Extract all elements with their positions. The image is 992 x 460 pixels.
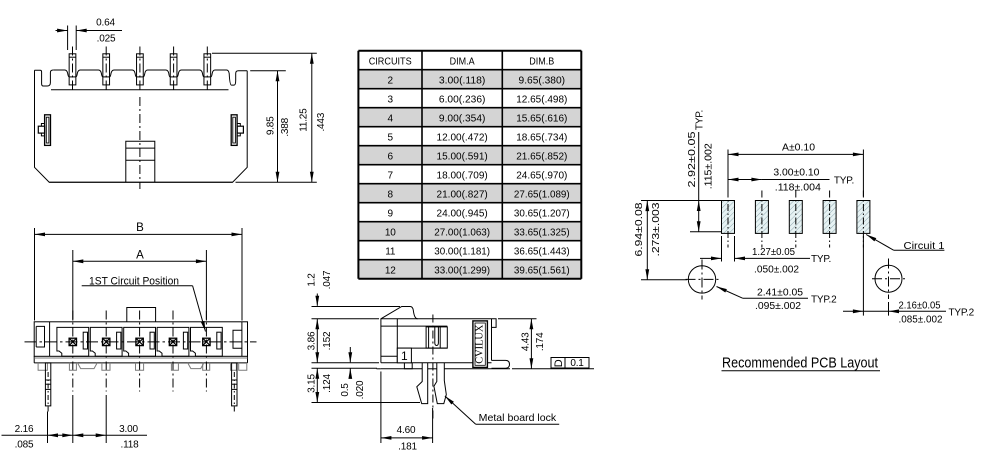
dimension 2.16 extension lines: [862, 236, 864, 316]
front view: center mounting boss: [126, 141, 155, 182]
side view: right metal board lock prong: [434, 363, 446, 404]
side view: bottom flange line: [381, 362, 492, 364]
svg-text:11.25: 11.25: [299, 108, 310, 132]
side view: interior horizontal upper line: [381, 325, 447, 327]
svg-text:3: 3: [388, 95, 394, 106]
svg-text:30.65(1.207): 30.65(1.207): [514, 209, 570, 220]
svg-text:9: 9: [388, 209, 394, 220]
front view: pin 5: [204, 54, 211, 85]
dimension 0.5 arrows: [349, 347, 351, 362]
svg-text:.152: .152: [322, 331, 333, 350]
svg-text:6: 6: [388, 152, 394, 163]
pcb pad 4 centerline: [829, 191, 831, 248]
svg-text:24.65(.970): 24.65(.970): [516, 171, 567, 182]
svg-text:4.60: 4.60: [397, 425, 416, 436]
svg-text:.181: .181: [398, 442, 417, 453]
pcb pad 5: [857, 201, 870, 234]
top view: contact pin 4 with X: [169, 338, 176, 345]
svg-text:TYP.: TYP.: [834, 175, 854, 186]
top view: body outer rectangle: [34, 322, 247, 357]
top view: right end wall: [241, 322, 243, 357]
svg-text:.124: .124: [322, 374, 333, 393]
top view: cavity 2 inner key slot: [117, 332, 121, 349]
dimension 1.2 extension line: [312, 306, 401, 308]
svg-text:4.43: 4.43: [521, 332, 532, 351]
svg-text:12.65(.498): 12.65(.498): [516, 95, 567, 106]
svg-text:2.16±0.05: 2.16±0.05: [899, 300, 941, 311]
dimension B dim line: [35, 233, 243, 235]
side view: body outline: [381, 307, 492, 363]
top view: left end inner detail: [36, 326, 44, 347]
svg-text:3.00(.118): 3.00(.118): [439, 76, 486, 87]
svg-text:27.00(1.063): 27.00(1.063): [434, 228, 490, 239]
dimension 9.85 extension line (top): [250, 70, 286, 72]
front view: pin 2 centerline: [105, 47, 107, 92]
svg-text:.050±.002: .050±.002: [754, 265, 799, 276]
pcb right mounting hole: [875, 265, 902, 292]
front view: left metal board-lock tab: [45, 115, 51, 146]
svg-text:.115±.002: .115±.002: [704, 143, 715, 189]
front view: pin 1 centerline: [72, 47, 74, 92]
svg-text:.118: .118: [121, 440, 140, 451]
front view: top edge with scallops and end notches: [35, 70, 54, 86]
svg-text:1.27±0.05: 1.27±0.05: [752, 247, 795, 258]
datum feature box D 0.1: [551, 358, 589, 369]
label Metal board lock underline: [476, 423, 560, 425]
svg-text:D: D: [553, 359, 565, 367]
svg-text:0.5: 0.5: [340, 383, 351, 397]
dimension 2.16/3.00 extension lines: [47, 412, 49, 444]
pcb pad 5 centerline: [862, 191, 864, 248]
top view: contact pin 5 with X: [203, 338, 210, 345]
svg-text:24.00(.945): 24.00(.945): [437, 209, 488, 220]
side view: SMT solder lead: [492, 360, 510, 368]
svg-text:1.2: 1.2: [307, 273, 318, 287]
svg-text:15.00(.591): 15.00(.591): [437, 152, 488, 163]
side view: left metal board lock prong: [417, 363, 428, 404]
front view: pin 3: [137, 54, 144, 85]
front view: pin 5 centerline: [206, 47, 208, 92]
front view: pin 4 centerline: [173, 47, 175, 92]
dimension 3.15 extension lines: [312, 367, 378, 369]
dimension 1.27 dim line: [700, 257, 722, 259]
svg-text:DIM.B: DIM.B: [529, 57, 554, 68]
svg-text:3.00±0.10: 3.00±0.10: [773, 168, 819, 179]
pcb pad 4: [823, 201, 836, 234]
svg-text:TYP.: TYP.: [695, 110, 706, 130]
dimension 4.43 dim line: [530, 319, 532, 369]
svg-text:CIRCUITS: CIRCUITS: [369, 57, 412, 68]
svg-text:9.65(.380): 9.65(.380): [519, 76, 566, 87]
svg-text:Recommended PCB Layout: Recommended PCB Layout: [722, 355, 879, 372]
svg-text:9.00(.354): 9.00(.354): [439, 114, 486, 125]
svg-text:3.00: 3.00: [119, 424, 138, 435]
dimension 2.16/3.00 dim line: [2, 434, 148, 436]
top view: cavity 1: [57, 327, 89, 356]
top view: cavity 3: [124, 327, 156, 356]
svg-text:CVILUX: CVILUX: [475, 324, 486, 364]
side view: interior horizontal lower line: [397, 347, 447, 349]
top view: cavity 4 inner key slot: [183, 332, 187, 349]
dimension 4.60 dim line: [381, 437, 433, 439]
dimension 3.86 dim line: [316, 319, 318, 363]
dimension 2.16 dim line: [843, 310, 863, 312]
dimension 6.94 dim line: [646, 201, 648, 280]
side view: left inner wall: [396, 319, 398, 363]
dimension A dim line: [73, 260, 207, 262]
pcb pad 1: [722, 201, 735, 234]
dimension 1.27 extension lines: [721, 236, 723, 262]
table grid lines: [358, 50, 581, 52]
svg-text:A±0.10: A±0.10: [782, 143, 815, 154]
side view: right top notch: [492, 319, 497, 328]
table: circuits dimension table: [358, 70, 581, 89]
dimension 11.25 dim line: [311, 53, 313, 182]
pcb pad 3 centerline: [795, 191, 797, 248]
top view: right end inner detail: [233, 330, 242, 348]
dimension 3.15 dim line: [316, 368, 318, 402]
dimension B extension lines: [34, 228, 36, 321]
side view: left block lower line: [381, 355, 397, 357]
svg-text:5: 5: [388, 133, 394, 144]
top view: cavity 4 vertical centerline: [172, 311, 174, 392]
dimension A±0.10 dim line: [728, 153, 863, 155]
svg-text:33.65(1.325): 33.65(1.325): [514, 228, 570, 239]
svg-text:.085±.002: .085±.002: [899, 315, 943, 326]
svg-text:33.00(1.299): 33.00(1.299): [434, 266, 490, 277]
dimension 11.25 extension line (top, at pin tips): [212, 52, 317, 54]
svg-text:TYP.2: TYP.2: [811, 295, 837, 306]
svg-text:.174: .174: [535, 332, 546, 351]
svg-text:10: 10: [385, 228, 396, 239]
svg-text:8: 8: [388, 190, 394, 201]
top view: bottom mounting strip: [34, 362, 247, 364]
svg-text:6.00(.236): 6.00(.236): [439, 95, 486, 106]
svg-text:21.65(.852): 21.65(.852): [516, 152, 567, 163]
pcb pad bottom extension line: [690, 231, 722, 233]
top view: cavity 2: [90, 327, 122, 356]
top view: left end wall: [49, 322, 51, 357]
side view: seating plane line: [377, 368, 381, 370]
svg-text:36.65(1.443): 36.65(1.443): [514, 247, 570, 258]
top view: cavity 4: [157, 327, 189, 356]
top view: solder tab row (gray): [34, 357, 247, 359]
svg-text:2.16: 2.16: [15, 424, 34, 435]
svg-text:.118±.004: .118±.004: [775, 183, 821, 194]
dimension 3.86 extension lines: [312, 318, 380, 320]
svg-text:A: A: [136, 249, 144, 261]
top view: right board-lock pin: [232, 363, 237, 406]
dimension 9.85/11.25 bottom extension line: [236, 181, 317, 183]
svg-text:1: 1: [401, 349, 408, 363]
top view: cavity 3 inner key slot: [150, 332, 154, 349]
svg-text:.025: .025: [97, 34, 116, 45]
svg-text:Metal board lock: Metal board lock: [479, 412, 557, 424]
top view: top bump: [127, 308, 156, 322]
front view: recess floor line: [51, 89, 229, 91]
svg-text:2.41±0.05: 2.41±0.05: [757, 287, 803, 298]
pcb pad 2: [755, 201, 768, 234]
front view: pin 1: [69, 54, 76, 85]
svg-text:21.00(.827): 21.00(.827): [437, 190, 488, 201]
dimension 2.92 dim line: [698, 132, 700, 232]
svg-text:0.1: 0.1: [570, 358, 584, 369]
top view: cavity 2 vertical centerline: [105, 311, 107, 392]
top view: horizontal centerline: [25, 341, 257, 343]
svg-text:.020: .020: [355, 380, 366, 399]
side view: pin centerline: [432, 315, 434, 421]
top view: left board-lock pin: [45, 363, 50, 406]
dimension 1.2 arrow: [316, 294, 318, 306]
svg-text:TYP.2: TYP.2: [949, 308, 975, 319]
svg-text:12.00(.472): 12.00(.472): [437, 133, 488, 144]
top view: cavity 5 inner key slot: [217, 332, 221, 349]
svg-text:2.92±0.05: 2.92±0.05: [687, 131, 698, 188]
svg-text:TYP.: TYP.: [811, 254, 831, 265]
svg-text:11: 11: [385, 247, 396, 258]
pcb pad 1 centerline: [727, 191, 729, 248]
top view: cavity 1 inner key slot: [83, 332, 87, 349]
top view: cavity 3 vertical centerline: [139, 311, 141, 392]
svg-text:Circuit 1: Circuit 1: [904, 240, 945, 252]
pcb pad 2 centerline: [761, 191, 763, 248]
dimension 4.60 extension lines: [380, 372, 382, 444]
dimension 3.00±0.10 dim line with outside arrows: [728, 179, 762, 181]
front view: pin 4: [170, 54, 177, 85]
svg-text:.047: .047: [322, 270, 333, 289]
dimension 9.85 dim line: [277, 71, 279, 182]
svg-text:B: B: [136, 222, 144, 234]
front view: right metal board-lock tab: [231, 115, 237, 146]
dimension 4.43 extension lines: [498, 318, 537, 320]
side view: pin cavity cross-section: [426, 327, 447, 348]
dimension A extension lines: [72, 250, 74, 321]
svg-text:15.65(.616): 15.65(.616): [516, 114, 567, 125]
svg-text:0.64: 0.64: [96, 18, 115, 29]
svg-text:4: 4: [388, 114, 394, 125]
front view: pin 3 centerline: [139, 47, 141, 92]
front view: center vertical centerline: [139, 97, 141, 189]
front view: body bottom weld-tab seam line: [49, 181, 232, 183]
side view: body top inner line: [381, 318, 418, 320]
top view: contact pin 3 with X: [136, 338, 143, 345]
svg-text:.095±.002: .095±.002: [755, 301, 801, 312]
svg-text:2: 2: [388, 76, 394, 87]
svg-text:3.15: 3.15: [307, 374, 318, 393]
side view: flange tab under body: [404, 363, 412, 369]
svg-text:9.85: 9.85: [266, 116, 277, 135]
svg-text:.388: .388: [280, 117, 291, 136]
svg-text:.443: .443: [316, 112, 327, 131]
dimension 0.64 extension lines: [67, 26, 69, 51]
front view: connector body outline: [35, 70, 248, 182]
svg-text:27.65(1.089): 27.65(1.089): [514, 190, 570, 201]
dimension 0.64 dim line with outside arrows: [56, 30, 68, 32]
top view: cavity 5: [191, 327, 223, 356]
side view: circuit number box 1: [397, 348, 411, 363]
dimension 2.41 leader: [717, 287, 743, 299]
svg-text:3.86: 3.86: [307, 331, 318, 350]
pcb pad 3: [789, 201, 802, 234]
svg-text:12: 12: [385, 266, 396, 277]
pcb hole center extension line: [641, 279, 687, 281]
svg-text:39.65(1.561): 39.65(1.561): [514, 266, 570, 277]
svg-text:DIM.A: DIM.A: [450, 57, 475, 68]
svg-text:18.00(.709): 18.00(.709): [437, 171, 488, 182]
dimension A±0.10 extension lines: [727, 150, 729, 197]
svg-text:.273±.003: .273±.003: [651, 202, 662, 257]
pcb pad top extension line: [641, 200, 722, 202]
svg-text:18.65(.734): 18.65(.734): [516, 133, 567, 144]
top view: contact pin 1 with X: [69, 338, 76, 345]
side view: CVILUX logo box: [473, 321, 488, 368]
svg-text:6.94±0.08: 6.94±0.08: [634, 202, 645, 257]
svg-text:30.00(1.181): 30.00(1.181): [434, 247, 490, 258]
pcb left mounting hole: [688, 266, 715, 293]
top view: cavity 1 vertical centerline: [72, 311, 74, 392]
top view: contact pin 2 with X: [103, 338, 110, 345]
svg-text:.085: .085: [15, 440, 34, 451]
front view: pin 2: [103, 54, 110, 85]
svg-text:7: 7: [388, 171, 394, 182]
top view: cavity 5 vertical centerline: [205, 311, 207, 392]
label Circuit 1 with leader: [866, 235, 894, 251]
